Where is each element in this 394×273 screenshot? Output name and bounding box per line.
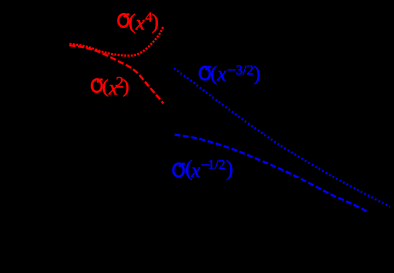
svg-text:x: x <box>135 12 145 34</box>
svg-text:): ) <box>226 157 233 181</box>
svg-text:(: ( <box>102 77 108 98</box>
svg-text:): ) <box>123 77 129 98</box>
svg-text:): ) <box>152 10 159 34</box>
svg-text:): ) <box>254 63 261 85</box>
svg-text:3/2: 3/2 <box>236 62 254 77</box>
svg-text:x: x <box>190 160 200 182</box>
svg-text:1/2: 1/2 <box>208 157 226 172</box>
svg-text:x: x <box>216 64 226 86</box>
svg-text:(: ( <box>129 10 136 34</box>
